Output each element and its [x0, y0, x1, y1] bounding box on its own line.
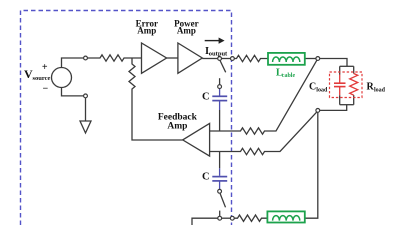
svg-text:C: C	[202, 172, 210, 183]
svg-text:Amp: Amp	[137, 26, 156, 36]
svg-text:source: source	[33, 75, 51, 82]
svg-text:cable: cable	[282, 73, 296, 79]
svg-text:Amp: Amp	[167, 122, 187, 132]
svg-text:output: output	[209, 51, 228, 58]
svg-text:load: load	[374, 87, 386, 93]
svg-text:C: C	[202, 91, 210, 102]
svg-text:C: C	[309, 82, 316, 93]
svg-text:Amp: Amp	[177, 26, 196, 36]
svg-text:−: −	[42, 84, 48, 95]
svg-text:load: load	[316, 87, 328, 93]
svg-text:+: +	[42, 62, 48, 73]
